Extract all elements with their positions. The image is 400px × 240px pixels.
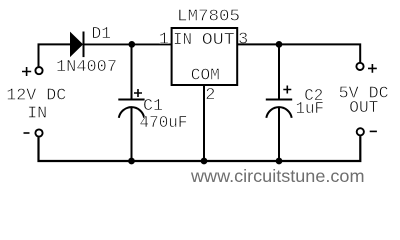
wire: regulator pin 3 to output + terminal xyxy=(237,44,360,62)
svg-text:LM7805: LM7805 xyxy=(177,8,240,27)
node: C2 ground junction xyxy=(276,158,283,165)
terminal: output - xyxy=(357,128,364,135)
capacitor C2 xyxy=(266,86,292,118)
wire: junction down to C2 xyxy=(278,44,280,98)
svg-text:1N4007: 1N4007 xyxy=(56,58,117,77)
svg-text:IN: IN xyxy=(173,31,192,50)
svg-text:2: 2 xyxy=(205,86,215,105)
terminal: input + xyxy=(35,67,42,74)
svg-text:OUT: OUT xyxy=(202,31,235,50)
wire: input + terminal up to top rail, right to diode anode xyxy=(39,44,71,66)
svg-text:1: 1 xyxy=(159,31,169,50)
svg-text:12V DC: 12V DC xyxy=(6,87,66,106)
node: junction OUT/C2 xyxy=(276,41,283,48)
svg-text:OUT: OUT xyxy=(349,99,378,118)
label: input plus sign xyxy=(22,67,31,76)
wire: C2 down to ground rail xyxy=(278,108,280,161)
terminal: input - xyxy=(35,129,42,136)
wire: regulator pin 2 down to ground rail xyxy=(203,86,205,161)
node: C1 ground junction xyxy=(128,158,135,165)
op-amp U1: LM7805 regulator box xyxy=(172,28,238,85)
wire: diode cathode to regulator pin 1 xyxy=(85,43,172,45)
svg-text:1uF: 1uF xyxy=(296,100,325,119)
svg-text:D1: D1 xyxy=(92,25,112,44)
svg-text:3: 3 xyxy=(238,31,248,50)
label: input minus sign xyxy=(24,132,30,134)
label: output minus sign xyxy=(370,130,377,132)
node: junction diode/C1 xyxy=(128,41,135,48)
diode D1 xyxy=(71,32,84,58)
capacitor C1 xyxy=(118,89,144,118)
node: pin2 ground junction xyxy=(201,158,208,165)
svg-text:IN: IN xyxy=(27,104,47,123)
wire: junction down to C1 xyxy=(131,44,133,98)
svg-text:COM: COM xyxy=(191,67,220,86)
wire: ground rail from input - terminal to output - terminal xyxy=(39,136,361,161)
label: output plus sign xyxy=(368,64,377,73)
terminal: output + xyxy=(356,63,363,70)
wire: C1 down to ground rail xyxy=(131,108,133,161)
svg-text:470uF: 470uF xyxy=(140,114,188,133)
svg-text:www.circuitstune.com: www.circuitstune.com xyxy=(190,166,365,186)
